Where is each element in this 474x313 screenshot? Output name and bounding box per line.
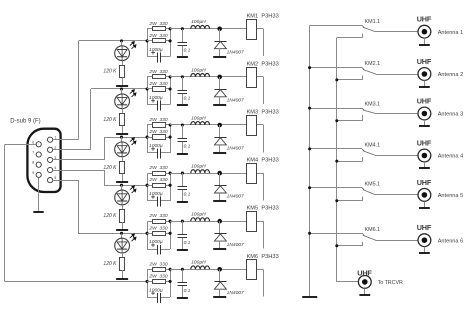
switch blade KM1.1 — [363, 27, 376, 31]
ground below C2b — [177, 104, 188, 106]
wire channel 6 main rail — [170, 269, 246, 271]
wire UHF 5 shell to ground — [424, 201, 426, 207]
inductor L4 100µH — [191, 170, 210, 173]
svg-text:100µH: 100µH — [191, 212, 206, 218]
node C3b tap — [181, 123, 184, 126]
resistor R3b 2W 330 — [147, 137, 152, 139]
svg-text:1000µ: 1000µ — [149, 47, 163, 53]
relay KM1 coil — [247, 20, 257, 40]
svg-text:Antenna 1: Antenna 1 — [438, 30, 464, 36]
svg-text:Antenna 2: Antenna 2 — [438, 72, 464, 78]
LED1 light arrows — [130, 42, 136, 49]
node right rail channel 1 — [170, 29, 172, 57]
wire R2 to ground — [122, 126, 124, 134]
node left rail channel 4 — [147, 173, 149, 201]
node left rail channel 6 — [147, 269, 149, 297]
contact KM3.1 tip — [362, 108, 364, 110]
LED HL5 — [115, 238, 130, 253]
capacitor C6a 1000µ electrolytic — [147, 297, 157, 299]
svg-text:1N4007: 1N4007 — [227, 242, 244, 248]
capacitor C1a 1000µ electrolytic — [147, 56, 157, 58]
relay KM6 coil — [247, 260, 257, 280]
capacitor C2a polarity + — [151, 99, 155, 103]
node left rail channel 3 — [147, 125, 149, 153]
svg-text:8: 8 — [32, 161, 34, 165]
node LED1 top junction — [120, 39, 123, 42]
svg-text:UHF: UHF — [417, 97, 432, 106]
wire pin 3 to channel 3 — [53, 159, 104, 161]
svg-text:KM3.1: KM3.1 — [365, 102, 381, 108]
pin 9 of X1 — [36, 172, 41, 177]
wire LED2 cathode to R2 — [122, 109, 124, 114]
svg-text:6: 6 — [32, 140, 34, 144]
relay KM2 coil — [247, 68, 257, 88]
wire relay KM4 to ground — [257, 173, 264, 175]
capacitor C1a polarity + — [151, 51, 155, 55]
capacitor C3b 0.1 — [182, 125, 184, 139]
wire KM1.1 ground contact — [310, 25, 362, 27]
wire LED3 anode — [121, 137, 123, 142]
node C2b tap — [181, 75, 184, 78]
pin 8 of X1 — [36, 162, 41, 167]
ground below R5 — [116, 278, 128, 280]
wire KM2.1 lower contact — [362, 76, 364, 80]
wire channel 4 main rail — [170, 173, 246, 175]
ground below C4b — [177, 201, 188, 203]
wire TRCVR bus — [336, 37, 338, 282]
capacitor C5a polarity + — [151, 243, 155, 247]
wire R3 to ground — [122, 174, 124, 182]
resistor R4 120K — [120, 210, 125, 223]
capacitor C6a polarity + — [151, 291, 155, 295]
ground below UHF TRCVR — [359, 294, 370, 296]
wire relay KM6 to ground — [257, 269, 264, 271]
wire LED1 anode — [121, 41, 123, 46]
node LED2 top junction — [120, 87, 123, 90]
contact KM6.1 tip — [362, 233, 364, 235]
svg-text:2W 330: 2W 330 — [148, 273, 167, 279]
resistor R2b 2W 330 — [147, 88, 152, 90]
node diode VD6 junction — [217, 267, 222, 272]
LED HL3 — [115, 142, 130, 157]
connector UHF to TRCVR — [358, 276, 371, 289]
relay KM5 coil — [247, 212, 257, 232]
svg-text:9: 9 — [32, 171, 34, 175]
wire LED4 cathode to R4 — [122, 205, 124, 210]
wire KM6.1 lower contact — [362, 242, 364, 246]
svg-text:KM6.1: KM6.1 — [365, 227, 381, 233]
wire relay KM5 to ground — [257, 221, 264, 223]
wire LED1 cathode to R1 — [122, 61, 124, 66]
ground below UHF 5 — [419, 207, 430, 209]
svg-text:0.1: 0.1 — [184, 240, 191, 246]
resistor R6a 2W 330 — [147, 269, 152, 271]
wire KM1.1 lower contact — [362, 33, 364, 37]
svg-text:Antenna 6: Antenna 6 — [438, 238, 464, 244]
wire UHF 3 shell to ground — [424, 120, 426, 126]
ground below X1 — [33, 211, 43, 213]
wire UHF TRCVR shell to ground — [364, 288, 366, 294]
resistor R5 120K — [120, 258, 125, 271]
contact KM2.1 tip — [362, 68, 364, 70]
svg-text:D-sub 9 (F): D-sub 9 (F) — [10, 119, 40, 125]
wire channel 1 main rail — [170, 28, 246, 30]
ground below C5b — [177, 249, 188, 251]
wire UHF 4 shell to ground — [424, 162, 426, 168]
resistor R4a 2W 330 — [147, 173, 152, 175]
node diode VD3 junction — [217, 123, 222, 128]
ground below UHF 2 — [419, 86, 430, 88]
wire KM6.1 to antenna 6 — [376, 240, 418, 242]
pin 7 of X1 — [36, 152, 41, 157]
LED2 light arrows — [130, 90, 136, 97]
resistor R3a 2W 330 — [147, 124, 152, 126]
inductor L5 100µH — [191, 218, 210, 221]
svg-text:0.1: 0.1 — [184, 47, 191, 53]
svg-text:KM2 P3H33: KM2 P3H33 — [247, 61, 279, 67]
svg-text:2W 330: 2W 330 — [148, 213, 167, 219]
resistor R2 120K — [120, 114, 125, 126]
wire UHF 6 shell to ground — [424, 247, 426, 253]
LED HL1 — [115, 46, 130, 61]
wire pin 2 to channel 2 — [53, 149, 91, 151]
svg-text:KM4.1: KM4.1 — [365, 143, 381, 149]
ground below R1 — [116, 85, 128, 87]
wire pin 1 to channel 1 — [53, 139, 79, 141]
inductor L3 100µH — [191, 122, 210, 125]
ground below C1b — [177, 56, 188, 58]
node right rail channel 3 — [170, 125, 172, 153]
wire relay KM1 to ground — [257, 28, 264, 30]
svg-text:100µH: 100µH — [191, 19, 206, 25]
capacitor C6b 0.1 — [182, 269, 184, 283]
capacitor C4a polarity + — [151, 195, 155, 199]
node C4b tap — [181, 172, 184, 175]
diode VD2 1N4007 — [219, 77, 221, 89]
LED4 light arrows — [130, 186, 136, 193]
svg-text:120 K: 120 K — [103, 165, 117, 171]
svg-text:Antenna 3: Antenna 3 — [438, 112, 464, 118]
svg-text:To TRCVR: To TRCVR — [378, 280, 403, 286]
wire KM2.1 ground contact — [310, 67, 362, 69]
wire channel 5 main rail — [170, 221, 246, 223]
svg-text:KM3 P3H33: KM3 P3H33 — [247, 110, 279, 116]
node diode VD4 junction — [217, 171, 222, 176]
svg-text:0.1: 0.1 — [184, 288, 191, 294]
LED HL2 — [115, 94, 130, 109]
wire feed channel 6 — [4, 281, 147, 283]
svg-text:Antenna 4: Antenna 4 — [438, 154, 464, 160]
capacitor C4a 1000µ electrolytic — [147, 200, 157, 202]
connector UHF antenna 6 — [418, 234, 431, 247]
node diode VD5 junction — [217, 219, 222, 224]
diode VD3 1N4007 — [219, 125, 221, 137]
diode VD6 1N4007 — [219, 269, 221, 281]
svg-text:100µH: 100µH — [191, 67, 206, 73]
wire feed channel 1 — [78, 40, 147, 42]
wire KM2.1 to antenna 2 — [376, 74, 418, 76]
wire KM3.1 lower contact — [362, 115, 364, 121]
ground below VD5 — [213, 248, 226, 250]
svg-text:100µH: 100µH — [191, 260, 206, 266]
svg-text:2W 330: 2W 330 — [148, 21, 167, 27]
diode VD5 1N4007 — [219, 221, 221, 233]
diode VD4 1N4007 — [219, 173, 221, 185]
inductor L1 100µH — [191, 25, 210, 28]
capacitor C3a polarity + — [151, 147, 155, 151]
resistor R1 120K — [120, 66, 125, 78]
wire R1 to ground — [122, 78, 124, 86]
svg-text:1000µ: 1000µ — [149, 143, 163, 149]
svg-text:KM1 P3H33: KM1 P3H33 — [247, 13, 279, 19]
ground below UHF 3 — [419, 125, 430, 127]
node right rail channel 4 — [170, 173, 172, 201]
switch blade KM4.1 — [363, 151, 376, 156]
ground below R4 — [116, 229, 128, 231]
node LED4 top junction — [120, 184, 123, 187]
wire LED2 anode — [121, 89, 123, 94]
contact KM5.1 tip — [362, 188, 364, 190]
wire LED5 cathode to R5 — [122, 253, 124, 258]
ground below VD1 — [213, 56, 226, 58]
svg-text:5: 5 — [54, 176, 56, 180]
svg-text:120 K: 120 K — [103, 213, 117, 219]
ground below UHF 6 — [419, 252, 430, 254]
svg-text:2W 330: 2W 330 — [148, 177, 167, 183]
pin 4 of X1 — [48, 167, 53, 172]
wire R5 to ground — [122, 270, 124, 278]
wire UHF 2 shell to ground — [424, 80, 426, 86]
svg-text:KM2.1: KM2.1 — [365, 61, 381, 67]
svg-text:UHF: UHF — [417, 15, 432, 24]
pin 6 of X1 — [36, 142, 41, 147]
svg-text:0.1: 0.1 — [184, 192, 191, 198]
ground below C3b — [177, 153, 188, 155]
resistor R1a 2W 330 — [147, 28, 152, 30]
node left rail channel 1 — [147, 29, 149, 57]
svg-text:KM1.1: KM1.1 — [365, 19, 381, 25]
LED5 light arrows — [130, 234, 136, 241]
svg-text:1000µ: 1000µ — [149, 239, 163, 245]
resistor R5b 2W 330 — [147, 233, 152, 235]
connector UHF antenna 5 — [418, 189, 431, 202]
pin 3 of X1 — [48, 157, 53, 162]
wire LED3 cathode to R3 — [122, 157, 124, 162]
wire KM4.1 lower contact — [362, 157, 364, 161]
ground below VD3 — [213, 152, 226, 154]
svg-text:4: 4 — [54, 166, 56, 170]
svg-text:Antenna 5: Antenna 5 — [438, 193, 464, 199]
capacitor C4b 0.1 — [182, 173, 184, 187]
ground below ground bus — [302, 296, 317, 298]
svg-text:100µH: 100µH — [191, 115, 206, 121]
pin 1 of X1 — [48, 137, 53, 142]
LED HL4 — [115, 190, 130, 205]
capacitor C3a 1000µ electrolytic — [147, 152, 157, 154]
svg-text:2W 330: 2W 330 — [148, 261, 167, 267]
node left rail channel 2 — [147, 77, 149, 105]
svg-text:2W 330: 2W 330 — [148, 225, 167, 231]
capacitor C5b 0.1 — [182, 221, 184, 235]
svg-text:1N4007: 1N4007 — [227, 290, 244, 296]
svg-text:120 K: 120 K — [103, 117, 117, 123]
ground below VD4 — [213, 200, 226, 202]
svg-text:1N4007: 1N4007 — [227, 146, 244, 152]
relay KM3 coil — [247, 116, 257, 136]
wire feed channel 4 — [104, 185, 147, 187]
wire relay KM3 to ground — [257, 124, 264, 126]
svg-text:2W 330: 2W 330 — [148, 165, 167, 171]
wire LED4 anode — [121, 185, 123, 190]
wire R4 to ground — [122, 222, 124, 230]
capacitor C1b 0.1 — [182, 29, 184, 43]
connector UHF antenna 4 — [418, 149, 431, 162]
ground below R3 — [116, 181, 128, 183]
ground below UHF 1 — [419, 44, 430, 46]
wire KM6.1 ground contact — [310, 233, 362, 235]
svg-text:120 K: 120 K — [103, 69, 117, 75]
capacitor C5a 1000µ electrolytic — [147, 249, 157, 251]
contact KM1.1 tip — [362, 25, 364, 27]
wire feed channel 3 — [104, 137, 147, 139]
wire KM5.1 ground contact — [310, 187, 362, 189]
node C5b tap — [181, 220, 184, 223]
svg-text:1N4007: 1N4007 — [227, 98, 244, 104]
node diode VD1 junction — [217, 27, 222, 32]
node C1b tap — [181, 27, 184, 30]
svg-text:100µH: 100µH — [191, 164, 206, 170]
LED3 light arrows — [130, 138, 136, 145]
wire pin 9 to ground — [38, 178, 40, 213]
switch blade KM3.1 — [363, 110, 376, 114]
svg-text:KM5.1: KM5.1 — [365, 181, 381, 187]
wire KM3.1 ground contact — [310, 108, 362, 110]
wire KM5.1 lower contact — [362, 197, 364, 201]
switch blade KM6.1 — [363, 235, 376, 240]
svg-text:1N4007: 1N4007 — [227, 49, 244, 55]
svg-text:KM6 P3H33: KM6 P3H33 — [247, 254, 279, 260]
wire channel 2 main rail — [170, 76, 246, 78]
node diode VD2 junction — [217, 75, 222, 80]
diode VD1 1N4007 — [219, 29, 221, 41]
wire pin 6 to channel 6 — [4, 144, 36, 146]
wire pin 5 to channel 5 — [53, 180, 78, 182]
resistor R4b 2W 330 — [147, 185, 152, 187]
connector X1 D-sub 9 outline — [27, 129, 60, 192]
wire KM3.1 to antenna 3 — [376, 113, 418, 115]
ground below VD6 — [213, 296, 226, 298]
wire pin 4 to channel 4 — [53, 170, 104, 172]
wire feed channel 2 — [91, 88, 147, 90]
resistor R5a 2W 330 — [147, 221, 152, 223]
svg-text:UHF: UHF — [417, 223, 432, 232]
wire KM4.1 to antenna 4 — [376, 155, 418, 157]
node LED3 top junction — [120, 136, 123, 139]
switch blade KM5.1 — [363, 190, 376, 195]
switch blade KM2.1 — [363, 70, 376, 75]
svg-text:UHF: UHF — [417, 57, 432, 66]
svg-text:KM4 P3H33: KM4 P3H33 — [247, 158, 279, 164]
node C6b tap — [181, 268, 184, 271]
node right rail channel 5 — [170, 221, 172, 249]
wire KM5.1 to antenna 5 — [376, 194, 418, 196]
svg-text:UHF: UHF — [417, 178, 432, 187]
wire relay KM2 to ground — [257, 76, 264, 78]
svg-text:UHF: UHF — [417, 139, 432, 148]
pin 2 of X1 — [48, 147, 53, 152]
node right rail channel 6 — [170, 269, 172, 297]
svg-text:1000µ: 1000µ — [149, 191, 163, 197]
capacitor C2b 0.1 — [182, 77, 184, 91]
svg-text:7: 7 — [32, 151, 34, 155]
node right rail channel 2 — [170, 77, 172, 105]
svg-text:0.1: 0.1 — [184, 144, 191, 150]
wire KM4.1 ground contact — [310, 148, 362, 150]
capacitor C2a 1000µ electrolytic — [147, 104, 157, 106]
svg-text:1N4007: 1N4007 — [227, 194, 244, 200]
ground below VD2 — [213, 104, 226, 106]
ground below UHF 4 — [419, 167, 430, 169]
svg-text:0.1: 0.1 — [184, 96, 191, 102]
inductor L2 100µH — [191, 73, 210, 76]
wire ground bus — [309, 25, 311, 297]
resistor R2a 2W 330 — [147, 76, 152, 78]
connector UHF antenna 1 — [418, 25, 431, 38]
resistor R1b 2W 330 — [147, 40, 152, 42]
svg-text:120 K: 120 K — [103, 261, 117, 267]
contact KM4.1 tip — [362, 149, 364, 151]
inductor L6 100µH — [191, 266, 210, 269]
svg-text:KM5 P3H33: KM5 P3H33 — [247, 206, 279, 212]
connector UHF antenna 2 — [418, 68, 431, 81]
wire channel 3 main rail — [170, 124, 246, 126]
node left rail channel 5 — [147, 221, 149, 249]
wire UHF 1 shell to ground — [424, 38, 426, 44]
relay KM4 coil — [247, 164, 257, 184]
svg-text:1000µ: 1000µ — [149, 287, 163, 293]
wire LED5 anode — [121, 233, 123, 238]
resistor R6b 2W 330 — [147, 281, 152, 283]
pin 5 of X1 — [48, 178, 53, 183]
ground below R2 — [116, 133, 128, 135]
connector UHF antenna 3 — [418, 107, 431, 120]
node LED5 top junction — [120, 232, 123, 235]
resistor R3 120K — [120, 162, 125, 174]
wire feed channel 5 — [78, 233, 147, 235]
svg-text:1000µ: 1000µ — [149, 95, 163, 101]
wire KM1.1 to antenna 1 — [376, 31, 418, 33]
ground below C6b — [177, 297, 188, 299]
